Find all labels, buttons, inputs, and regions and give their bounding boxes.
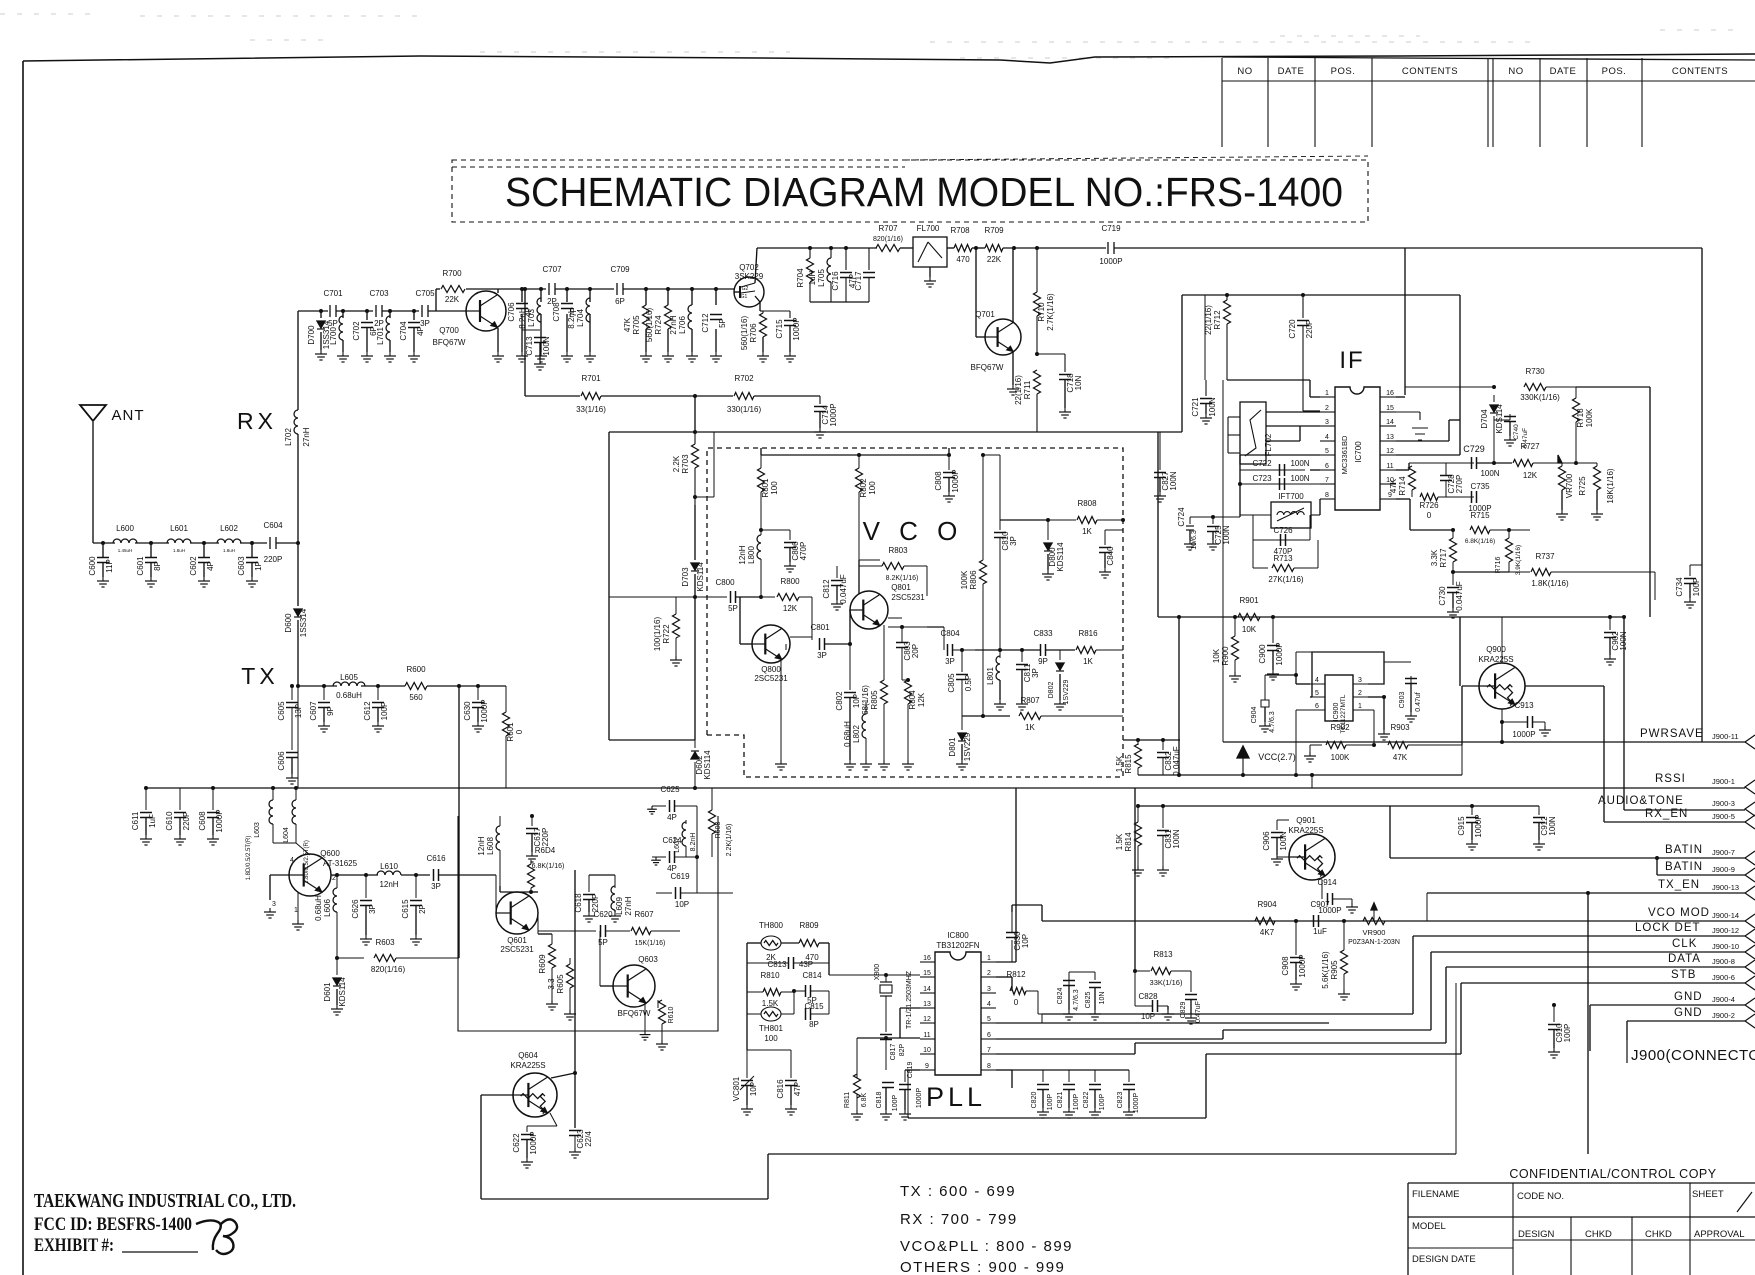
svg-text:KDS114: KDS114: [338, 977, 347, 1007]
svg-text:R710: R710: [1037, 302, 1046, 322]
svg-text:3P: 3P: [431, 882, 441, 891]
wire pin5 run: [996, 1022, 1329, 1024]
capacitor None: [669, 851, 671, 863]
wire: [566, 289, 568, 302]
wire: [1227, 417, 1229, 453]
wire: [1114, 247, 1405, 249]
capacitor C703: [375, 305, 377, 317]
capacitor C910: [1553, 1005, 1555, 1022]
wire: [1576, 386, 1650, 388]
svg-text:R904: R904: [1257, 900, 1277, 909]
capacitor C806: [761, 529, 790, 531]
transistor Q701 circuit: [975, 248, 977, 337]
capacitor C800: [609, 596, 727, 598]
wire: [540, 289, 542, 302]
wire: [644, 1003, 646, 1031]
resistor R811: [856, 1038, 858, 1078]
resistor R807: [1019, 713, 1041, 720]
capacitor None: [1037, 1084, 1049, 1086]
svg-text:0.47uF: 0.47uF: [1522, 428, 1529, 448]
pin 3: [1320, 425, 1335, 427]
capacitor C913: [1501, 709, 1503, 722]
svg-text:R715: R715: [1470, 511, 1490, 520]
capacitor C622: [550, 1113, 557, 1126]
inductor L605: [333, 682, 365, 686]
wire: [1459, 295, 1461, 455]
svg-text:9P: 9P: [326, 706, 335, 716]
capacitor C827: [1154, 472, 1166, 474]
svg-text:100N: 100N: [1169, 471, 1178, 490]
svg-text:330(1/16): 330(1/16): [727, 405, 762, 414]
svg-text:100P: 100P: [1073, 1094, 1080, 1111]
pin 12: [1380, 454, 1396, 456]
svg-text:11: 11: [923, 1032, 930, 1039]
capacitor C910: [1548, 1024, 1560, 1026]
ground: [999, 700, 1001, 704]
svg-text:R900: R900: [1221, 646, 1230, 666]
ground: [1094, 1108, 1096, 1112]
transformer L603 L604: [272, 788, 274, 800]
resistor R605: [567, 964, 574, 988]
svg-text:1K: 1K: [1025, 723, 1035, 732]
resistor R601: [503, 712, 510, 736]
svg-text:DATA: DATA: [1668, 953, 1701, 965]
svg-text:100K: 100K: [1331, 753, 1350, 762]
wire: [297, 543, 299, 606]
wire: [623, 288, 734, 290]
svg-text:X800: X800: [874, 964, 881, 980]
svg-text:C600: C600: [88, 556, 97, 576]
svg-text:C812: C812: [822, 579, 831, 599]
ground: [1162, 866, 1164, 870]
capacitor C806: [784, 542, 796, 544]
pin 3: [1353, 683, 1368, 685]
wire: [555, 288, 614, 290]
svg-text:C619: C619: [670, 872, 690, 881]
resistor R610: [657, 1000, 659, 1008]
transistor None: [466, 291, 506, 331]
svg-text:LOCK DET: LOCK DET: [1635, 922, 1701, 934]
svg-text:C813: C813: [767, 960, 787, 969]
resistor R711: [1034, 370, 1041, 394]
svg-text:1.80/0.5/2.5T(R): 1.80/0.5/2.5T(R): [304, 840, 310, 884]
svg-text:EXHIBIT #:: EXHIBIT #:: [34, 1236, 114, 1256]
svg-text:12: 12: [1386, 448, 1394, 455]
svg-text:820(1/16): 820(1/16): [371, 965, 406, 974]
ground: [661, 1040, 663, 1044]
svg-text:16: 16: [923, 955, 931, 962]
inductor L701: [386, 316, 390, 340]
svg-text:C612: C612: [363, 701, 372, 721]
wire: [667, 289, 669, 305]
wire: [962, 715, 1010, 717]
transistor None: [513, 1073, 557, 1117]
svg-text:L801: L801: [986, 667, 995, 685]
svg-text:9: 9: [925, 1063, 929, 1070]
wire: [1462, 685, 1479, 687]
svg-text:KDS114: KDS114: [703, 750, 712, 780]
svg-text:100N: 100N: [1619, 631, 1628, 650]
inductor L705: [827, 258, 831, 282]
wire collector rail: [498, 288, 546, 290]
svg-text:CODE NO.: CODE NO.: [1517, 1191, 1564, 1202]
svg-text:L610: L610: [380, 862, 398, 871]
resistor R730: [1405, 386, 1494, 388]
svg-text:1000P: 1000P: [829, 403, 838, 426]
svg-text:TB31202FN: TB31202FN: [936, 941, 979, 950]
svg-text:J900(CONNECTOR): J900(CONNECTOR): [1631, 1047, 1755, 1064]
capacitor C906: [1271, 832, 1283, 834]
svg-text:4: 4: [290, 857, 294, 864]
wire pin11: [1396, 469, 1409, 471]
svg-text:L609: L609: [615, 897, 624, 915]
svg-text:J900-7: J900-7: [1712, 848, 1735, 857]
svg-text:470P: 470P: [799, 542, 808, 561]
capacitor C718: [1059, 374, 1071, 376]
inductor None: [217, 539, 241, 543]
svg-text:100: 100: [764, 1034, 778, 1043]
wire: [524, 289, 526, 396]
pin 15: [920, 976, 935, 978]
ground: [675, 656, 677, 660]
svg-text:6: 6: [1315, 703, 1319, 710]
wire: [600, 985, 613, 987]
border top: [23, 54, 1755, 63]
svg-text:15: 15: [923, 970, 931, 977]
diode D801: [958, 733, 966, 740]
svg-text:0: 0: [1427, 511, 1432, 520]
svg-text:D601: D601: [323, 982, 332, 1002]
svg-text:820(1/16): 820(1/16): [873, 236, 903, 243]
svg-text:R814: R814: [1124, 832, 1133, 852]
svg-text:L702: L702: [284, 428, 293, 446]
ground: [1042, 1108, 1044, 1112]
capacitor C832: [1157, 752, 1169, 754]
diode D802v: [1059, 650, 1061, 660]
capacitor C811: [1021, 650, 1023, 662]
transistor Q601: [496, 892, 538, 934]
resistor R701: [525, 395, 580, 397]
svg-text:3P: 3P: [1009, 536, 1018, 546]
svg-text:J900-11: J900-11: [1712, 732, 1739, 741]
wire RSSI riser: [1496, 709, 1498, 711]
inductor L704: [586, 298, 590, 322]
svg-text:RX : 700 - 799: RX : 700 - 799: [900, 1211, 1018, 1228]
svg-text:R704: R704: [796, 268, 805, 288]
svg-text:C816: C816: [776, 1079, 785, 1099]
ground: [885, 1110, 887, 1114]
svg-text:3.3K: 3.3K: [1430, 549, 1439, 566]
capacitor C612: [377, 686, 379, 700]
svg-text:C626: C626: [351, 899, 360, 919]
pin 5: [1320, 454, 1335, 456]
wire: [1228, 416, 1240, 418]
svg-text:C717: C717: [854, 271, 863, 291]
pin 16: [1380, 396, 1396, 398]
wire: [1015, 788, 1017, 962]
svg-text:C602: C602: [189, 556, 198, 576]
wire: [574, 870, 576, 1128]
resistor R814: [1135, 822, 1142, 846]
svg-text:2SC5231: 2SC5231: [500, 945, 534, 954]
connector pin: [1745, 998, 1755, 1012]
resistor R700: [441, 286, 465, 293]
svg-text:PLL: PLL: [926, 1082, 986, 1112]
inductor L703: [537, 298, 541, 322]
svg-text:8.2nH: 8.2nH: [690, 833, 697, 852]
wire: [883, 625, 885, 680]
svg-text:1000P: 1000P: [916, 1088, 923, 1109]
resistor R605: [569, 958, 571, 964]
svg-text:G2: G2: [742, 286, 749, 292]
ground: [691, 352, 693, 356]
pin 2: [981, 976, 996, 978]
capacitor C805: [956, 674, 968, 676]
svg-text:C735: C735: [1470, 482, 1490, 491]
svg-text:C817: C817: [890, 1044, 897, 1061]
wire: [401, 874, 430, 876]
resistor R722: [673, 614, 680, 638]
transistor None: [613, 965, 655, 1007]
wire: [1453, 571, 1509, 573]
ground: [1068, 1108, 1070, 1112]
svg-text:10N: 10N: [1074, 375, 1083, 390]
diode None: [1056, 663, 1064, 670]
wire: [601, 395, 733, 397]
svg-text:BATIN: BATIN: [1665, 844, 1703, 856]
ground: [655, 857, 657, 860]
wire: [466, 288, 498, 290]
capacitor C723: [1240, 483, 1320, 485]
resistor R815: [1135, 744, 1142, 768]
svg-text:100P: 100P: [380, 702, 389, 721]
ground: [1383, 730, 1385, 734]
wire: [948, 448, 950, 455]
ground: [1189, 540, 1191, 544]
capacitor C915: [1471, 806, 1473, 815]
capacitor C825: [1069, 971, 1095, 973]
mid stage box: [458, 816, 718, 1031]
capacitor None: [669, 800, 671, 812]
ground: [1059, 700, 1061, 704]
VCO dashed box: [707, 448, 1123, 777]
svg-text:C900: C900: [1258, 644, 1267, 664]
ground: [1561, 510, 1563, 514]
capacitor C610: [179, 788, 181, 810]
wire: [691, 329, 693, 352]
capacitor None: [805, 1008, 807, 1020]
ground: [526, 1158, 528, 1162]
svg-text:R905: R905: [1330, 960, 1339, 980]
wire: [251, 563, 253, 577]
svg-text:L600: L600: [116, 524, 134, 533]
wire BATIN2: [1656, 858, 1658, 875]
ground: [1538, 840, 1540, 844]
svg-text:Q900: Q900: [1486, 645, 1506, 654]
svg-text:2: 2: [1358, 690, 1362, 697]
wire pin9: [1396, 498, 1410, 500]
ground: [1276, 855, 1278, 859]
wire: [336, 310, 373, 312]
svg-text:0.047uF: 0.047uF: [1455, 581, 1464, 610]
resistor R702: [734, 393, 754, 400]
svg-text:C601: C601: [136, 556, 145, 576]
svg-text:100N: 100N: [1279, 831, 1288, 850]
ground: [145, 835, 147, 839]
svg-text:4K7: 4K7: [1260, 928, 1275, 937]
svg-text:POS.: POS.: [1602, 66, 1627, 77]
wire: [427, 685, 506, 687]
wire TXEN riser: [1587, 893, 1589, 1154]
capacitor C824: [1068, 983, 1070, 1000]
svg-text:6: 6: [1325, 463, 1329, 470]
ground: [780, 760, 782, 764]
svg-text:22(1/16): 22(1/16): [1014, 375, 1023, 405]
wire long rail: [146, 787, 1016, 789]
svg-text:J900-8: J900-8: [1712, 957, 1735, 966]
svg-text:TAEKWANG INDUSTRIAL CO., LTD.: TAEKWANG INDUSTRIAL CO., LTD.: [34, 1191, 296, 1212]
wire: [691, 289, 693, 305]
svg-text:Q604: Q604: [518, 1051, 538, 1060]
pin 6: [981, 1038, 996, 1040]
svg-text:C724: C724: [1177, 507, 1186, 527]
svg-text:C605: C605: [277, 701, 286, 721]
ground: [1351, 903, 1353, 907]
capacitor None: [1089, 1084, 1101, 1086]
capacitor C912: [1538, 806, 1540, 815]
svg-text:R901: R901: [1239, 596, 1259, 605]
svg-text:L605: L605: [340, 673, 358, 682]
svg-text:IC800: IC800: [947, 931, 969, 940]
capacitor C610: [174, 812, 186, 814]
svg-text:C825: C825: [1085, 992, 1092, 1009]
svg-text:33(1/16): 33(1/16): [576, 405, 606, 414]
capacitor None: [1123, 1084, 1135, 1086]
capacitor None: [1504, 416, 1516, 418]
capacitor C802: [849, 644, 851, 690]
inductor L802: [862, 714, 866, 738]
ground: [1689, 598, 1691, 602]
capacitor C717: [863, 272, 875, 274]
wire drain: [755, 248, 757, 283]
svg-text:TX_EN: TX_EN: [1658, 879, 1700, 891]
capacitor C734: [1684, 578, 1696, 580]
capacitor None: [1040, 644, 1042, 656]
capacitor None: [899, 1084, 911, 1086]
ground: [614, 912, 616, 916]
svg-text:C630: C630: [463, 701, 472, 721]
svg-text:C906: C906: [1262, 831, 1271, 851]
IC U IC800: [935, 952, 981, 1075]
svg-text:TX : 600 - 699: TX : 600 - 699: [900, 1183, 1016, 1200]
svg-text:C705: C705: [415, 289, 435, 298]
svg-text:TH800: TH800: [759, 921, 784, 930]
ground: [1343, 990, 1345, 994]
wire: [1222, 380, 1224, 742]
svg-text:Q800: Q800: [761, 665, 781, 674]
pin 6: [1320, 469, 1335, 471]
pot VR700: [1533, 462, 1562, 464]
connector pin: [1745, 815, 1755, 829]
capacitor C726: [1252, 515, 1254, 540]
wire: [276, 542, 298, 544]
svg-text:47K: 47K: [1389, 478, 1398, 493]
svg-text:12nH: 12nH: [477, 836, 486, 855]
svg-text:7: 7: [1325, 477, 1329, 484]
wire RX rail: [298, 310, 328, 312]
svg-text:TX: TX: [241, 663, 278, 689]
svg-text:R700: R700: [442, 269, 462, 278]
svg-text:L706: L706: [678, 316, 687, 334]
wire: [696, 806, 698, 893]
wire: [1239, 470, 1241, 517]
diode D801: [961, 716, 963, 730]
svg-text:22K: 22K: [445, 295, 460, 304]
wire loop: [1312, 652, 1384, 697]
svg-text:R811: R811: [844, 1092, 851, 1108]
svg-text:R703: R703: [681, 454, 690, 474]
wire vco top rail: [761, 454, 949, 456]
ground: [948, 492, 950, 496]
wire GND2 run: [1627, 1020, 1745, 1022]
svg-text:ANT: ANT: [112, 407, 145, 424]
svg-text:CHKD: CHKD: [1585, 1229, 1612, 1240]
inductor L700: [339, 316, 343, 340]
ground: [531, 852, 533, 856]
svg-text:0.5P: 0.5P: [964, 675, 973, 691]
svg-text:Q600: Q600: [320, 849, 340, 858]
wire: [538, 933, 552, 935]
wire: [972, 247, 985, 249]
svg-text:R603: R603: [375, 938, 395, 947]
svg-text:2: 2: [987, 970, 991, 977]
capacitor C618: [583, 894, 595, 896]
inductor L705: [829, 246, 833, 250]
svg-text:C740: C740: [1513, 424, 1520, 440]
svg-text:C721: C721: [1191, 397, 1200, 417]
svg-text:L604: L604: [283, 827, 290, 843]
ground: [297, 920, 299, 924]
resistor R804: [905, 680, 912, 704]
ground: [929, 277, 931, 281]
resistor R706: [760, 313, 767, 337]
svg-text:VR700: VR700: [1565, 473, 1574, 498]
inductor L607: [685, 820, 687, 824]
capacitor None: [1089, 982, 1101, 984]
svg-text:C707: C707: [542, 265, 562, 274]
svg-text:1: 1: [1358, 703, 1362, 710]
capacitor C900: [1267, 645, 1279, 647]
ground: [102, 577, 104, 581]
wire pin10: [900, 1007, 920, 1009]
capacitor C906: [1276, 820, 1278, 830]
svg-text:G1: G1: [741, 294, 748, 300]
capacitor C709: [616, 283, 618, 295]
svg-text:13: 13: [1386, 434, 1394, 441]
svg-text:1000P: 1000P: [480, 699, 489, 722]
svg-text:27nH: 27nH: [302, 427, 311, 446]
resistor R704: [808, 246, 812, 250]
svg-text:C611: C611: [131, 811, 140, 830]
capacitor C602: [198, 557, 210, 559]
svg-text:1uF: 1uF: [1313, 927, 1327, 936]
capacitor C612: [372, 702, 384, 704]
svg-text:C715: C715: [775, 319, 784, 339]
wire: [785, 644, 787, 650]
svg-text:100N: 100N: [1548, 816, 1557, 835]
svg-text:R808: R808: [1077, 499, 1097, 508]
svg-text:C915: C915: [1457, 816, 1466, 836]
